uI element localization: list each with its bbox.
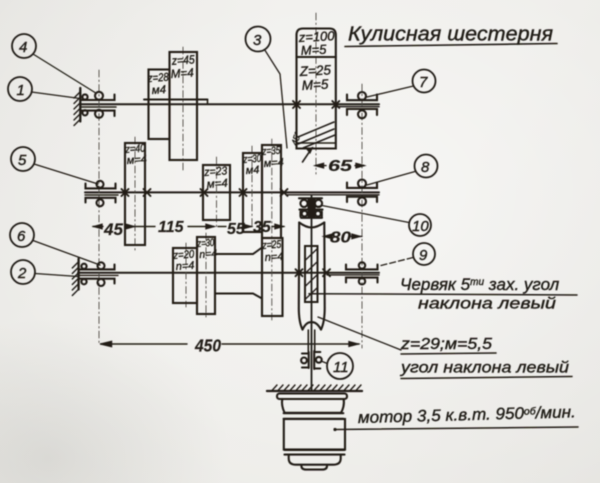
label z=45 [170, 52, 195, 81]
svg-text:10: 10 [412, 218, 429, 235]
svg-text:м=4: м=4 [126, 154, 147, 167]
centerline right bearing column [361, 84, 363, 348]
gear z30 upper [243, 153, 262, 232]
svg-text:115: 115 [158, 219, 185, 236]
centerline gear z23 [216, 157, 218, 228]
dimension 45-115-55-35 chain [93, 224, 284, 228]
svg-text:4: 4 [19, 39, 27, 56]
dimension 80 [324, 234, 362, 238]
meshing marks shaft II [122, 189, 288, 196]
svg-text:45: 45 [103, 220, 123, 239]
svg-text:450: 450 [194, 336, 221, 356]
svg-text:9: 9 [419, 247, 428, 264]
gear z30 lower [197, 237, 215, 314]
svg-text:Червяк 5ти зах. угол: Червяк 5ти зах. угол [400, 275, 560, 294]
centerline gear z40 [134, 137, 136, 252]
callout circle 7 [367, 70, 436, 98]
centerline left bearing column [98, 70, 100, 345]
label z=35 [261, 145, 284, 170]
gear z35 [262, 145, 281, 238]
bearing shaft I right [347, 92, 377, 118]
motor support [267, 385, 362, 391]
label z=40 [124, 143, 147, 167]
svg-text:M=4: M=4 [170, 65, 194, 81]
svg-text:45°: 45° [289, 130, 303, 146]
centerline gear z30 upper [251, 146, 253, 228]
bearing shaft I left [81, 92, 115, 118]
centerline big gear [315, 13, 317, 174]
meshing marks shaft III at worm wheel [296, 269, 331, 276]
callout circle 5 [11, 147, 98, 184]
gear z25 lower [262, 238, 283, 316]
bearing wall shaft I left [74, 88, 80, 126]
shaft III [78, 273, 379, 276]
svg-text:n=4: n=4 [199, 248, 218, 261]
svg-text:n=4: n=4 [264, 251, 283, 264]
svg-text:5: 5 [18, 152, 27, 169]
callout circle 3 [246, 27, 288, 149]
svg-text:м4: м4 [151, 84, 166, 97]
label z=28 [147, 72, 170, 97]
callout circle 11 [321, 353, 353, 379]
bearing shaft II left [86, 181, 116, 207]
svg-text:наклона левый: наклона левый [418, 296, 556, 313]
bearing shaft II right [347, 180, 377, 206]
dimension 450 [101, 341, 360, 346]
gear z23 [203, 165, 230, 220]
svg-text:6: 6 [17, 228, 26, 245]
callout circle 1 [8, 77, 80, 101]
shaft I [80, 100, 379, 108]
coupling [301, 351, 322, 369]
svg-text:65: 65 [328, 158, 353, 175]
svg-text:55: 55 [227, 221, 246, 238]
svg-text:Кулисная шестерня: Кулисная шестерня [348, 23, 553, 46]
svg-text:2: 2 [17, 265, 27, 282]
centerline gear z30 lower [205, 233, 207, 318]
label z=30 lower [196, 237, 218, 261]
svg-text:7: 7 [419, 74, 428, 91]
label z=20 [172, 248, 195, 273]
bearing shaft III right [346, 262, 378, 284]
svg-text:8: 8 [421, 159, 430, 176]
label z=100 kulisa [297, 28, 335, 58]
callout circle 8 [367, 155, 438, 186]
sleeve between z30 and z25 lower [215, 248, 262, 299]
svg-text:1: 1 [17, 82, 25, 99]
callout circle 10 [301, 206, 431, 237]
centerline gears z35/z25 [271, 139, 273, 320]
worm wheel barrel [299, 223, 325, 330]
worm (hatched) [305, 246, 318, 302]
callout circle 4 [12, 34, 95, 93]
shaft II [85, 192, 379, 195]
svg-text:м=4: м=4 [263, 157, 284, 170]
thrust bearing stack of worm shaft [299, 198, 323, 218]
svg-text:80: 80 [330, 230, 351, 247]
45 degree arrow in kulisa gear [303, 148, 313, 162]
callout circle 6 [10, 223, 100, 265]
svg-text:3: 3 [253, 32, 262, 49]
label z=25 lower [261, 239, 284, 264]
worm shaft vertical [308, 196, 314, 390]
svg-text:мотор 3,5 к.в.т. 950об/мин.: мотор 3,5 к.в.т. 950об/мин. [358, 403, 576, 427]
dimension 65 [316, 163, 365, 167]
gear z20 [173, 248, 197, 303]
gear z45 [170, 52, 198, 160]
bearing wall shaft III left [72, 259, 78, 296]
label z=30 upper [242, 153, 262, 177]
centerline gear z20 [185, 243, 187, 307]
gear z40 [125, 143, 145, 245]
svg-text:м=4: м=4 [206, 178, 228, 191]
label z=23 [203, 165, 228, 191]
bearing shaft III left [79, 262, 115, 286]
hatching in kulisa gear [298, 122, 335, 148]
svg-text:z=29;м=5,5: z=29;м=5,5 [400, 336, 492, 353]
callout circle 2 [11, 260, 78, 284]
gear z28 [149, 70, 170, 140]
svg-text:M=5: M=5 [300, 42, 327, 58]
meshing mark shaft I right of kulisa [332, 101, 339, 108]
callout circle 9 [379, 243, 435, 266]
centerline gear z45 [182, 47, 184, 173]
svg-text:35: 35 [253, 219, 272, 236]
label z=25 kulisa [298, 62, 331, 93]
svg-text:M=5: M=5 [301, 77, 329, 93]
motor M1 [277, 394, 347, 470]
svg-text:z=28: z=28 [147, 72, 170, 86]
svg-text:11: 11 [333, 359, 349, 376]
svg-text:м4: м4 [245, 164, 259, 177]
svg-text:угол наклона левый: угол наклона левый [400, 360, 569, 377]
meshing mark shaft I left of kulisa [293, 101, 300, 108]
svg-text:n=4: n=4 [175, 260, 194, 273]
kulisa gear z100/z25 [297, 29, 336, 149]
